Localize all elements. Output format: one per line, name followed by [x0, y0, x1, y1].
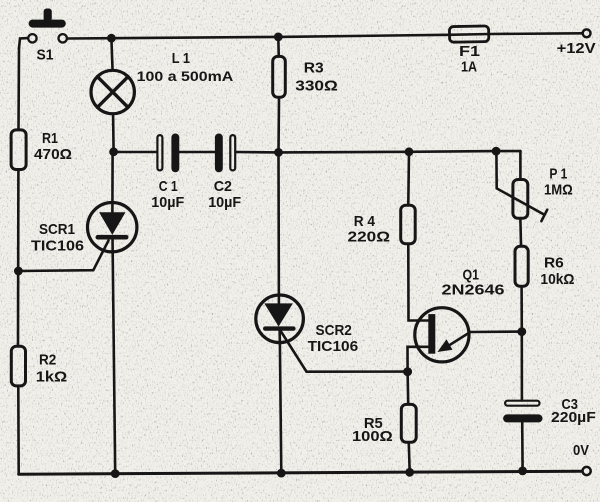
svg-text:P 1: P 1 — [549, 165, 567, 182]
svg-text:0V: 0V — [573, 442, 589, 459]
svg-text:100Ω: 100Ω — [352, 428, 393, 445]
node bottom rail C3 branch — [518, 467, 527, 476]
svg-text:R2: R2 — [39, 352, 56, 369]
capacitor C1 — [151, 134, 184, 212]
wire P1 top corner — [519, 151, 522, 178]
wire R4 bottom to Q1 base2 — [408, 245, 428, 320]
fuse F1 — [449, 26, 488, 76]
node top rail to R3 branch — [274, 33, 283, 42]
wire SCR1 gate to left rail — [18, 241, 108, 272]
svg-text:1kΩ: 1kΩ — [36, 369, 67, 386]
node bottom rail SCR2 branch — [277, 469, 286, 478]
svg-text:L 1: L 1 — [172, 50, 190, 67]
svg-text:10kΩ: 10kΩ — [540, 271, 574, 288]
node top rail to lamp branch — [107, 34, 116, 43]
svg-text:C 1: C 1 — [159, 178, 178, 195]
wire emitter node to C3 — [520, 332, 523, 401]
svg-text:10µF: 10µF — [208, 194, 241, 211]
wire lamp to middle-rail node — [112, 115, 115, 151]
svg-text:220µF: 220µF — [551, 409, 596, 426]
wire R6 to emitter node — [520, 288, 523, 332]
resistor R4 — [348, 205, 416, 245]
svg-text:C2: C2 — [214, 178, 232, 195]
wire Q1 emitter to node — [470, 330, 522, 333]
svg-text:F1: F1 — [459, 43, 480, 60]
wire lamp branch from top rail — [111, 38, 112, 68]
wire left rail mid segment — [17, 171, 20, 345]
resistor R6 — [515, 246, 575, 288]
wire P1 to R6 — [519, 220, 522, 245]
resistor R1 — [11, 130, 72, 170]
wire left rail upper segment — [17, 48, 20, 128]
svg-text:220Ω: 220Ω — [348, 229, 391, 246]
svg-text:470Ω: 470Ω — [34, 146, 72, 163]
wire between C1 and C2 — [179, 151, 214, 154]
svg-text:1MΩ: 1MΩ — [544, 182, 573, 199]
+12V terminal — [557, 29, 596, 57]
resistor R3 — [273, 56, 338, 97]
svg-text:330Ω: 330Ω — [295, 78, 338, 95]
wire middle rail from C2 to P1 corner — [236, 151, 520, 152]
node bottom rail R5 branch — [405, 468, 414, 477]
wire Q1 base1 to R5 — [408, 347, 429, 372]
wire middle rail segment to C1 — [114, 151, 157, 154]
thyristor SCR1 — [31, 152, 137, 255]
pushbutton switch S1 — [28, 9, 67, 64]
node bottom rail lamp branch — [111, 469, 120, 478]
node gate junction on left rail — [14, 267, 23, 276]
transistor Q1 unijunction 2N2646 — [415, 267, 505, 362]
capacitor C2 — [208, 134, 241, 212]
lamp L1 — [91, 50, 233, 114]
wire left rail lower segment — [17, 387, 20, 474]
svg-text:S1: S1 — [37, 47, 54, 64]
svg-text:SCR1: SCR1 — [39, 221, 75, 238]
wire R3 top — [277, 37, 280, 55]
resistor R2 — [11, 346, 67, 386]
node emitter junction — [517, 327, 526, 336]
0V terminal — [573, 442, 591, 475]
wire C3 to bottom rail — [521, 421, 524, 471]
svg-text:R 4: R 4 — [354, 213, 376, 230]
svg-text:2N2646: 2N2646 — [442, 282, 505, 299]
svg-text:R6: R6 — [544, 255, 564, 272]
resistor R5 — [352, 404, 416, 444]
wire SCR1 cathode down to bottom rail — [113, 253, 116, 473]
svg-text:100 a 500mA: 100 a 500mA — [137, 68, 234, 84]
wire from S1 left terminal to left rail — [19, 38, 28, 48]
svg-text:SCR2: SCR2 — [316, 322, 352, 339]
svg-text:TIC106: TIC106 — [31, 238, 84, 255]
thyristor SCR2 — [256, 152, 358, 355]
wire top rail from S1 to +12V — [68, 33, 582, 38]
capacitor C3 — [503, 396, 596, 426]
svg-text:TIC106: TIC106 — [308, 338, 359, 355]
wire junction to R5 — [406, 372, 409, 403]
node middle rail at P1 branch — [492, 147, 501, 156]
wire R3 bottom to middle rail — [277, 99, 280, 153]
svg-text:R3: R3 — [304, 60, 324, 77]
node middle rail at R4 branch — [405, 147, 414, 156]
svg-text:+12V: +12V — [557, 40, 596, 57]
svg-text:R1: R1 — [42, 130, 58, 147]
wire SCR2 cathode down to bottom rail — [280, 344, 281, 473]
svg-text:10µF: 10µF — [151, 194, 184, 211]
wire bottom rail — [19, 471, 582, 474]
node middle rail left — [109, 147, 118, 156]
node middle rail at R3/SCR2 branch — [274, 148, 283, 157]
wire R4 top — [407, 152, 410, 204]
svg-text:1A: 1A — [461, 59, 477, 76]
potentiometer P1 — [496, 151, 572, 221]
wire R5 bottom to bottom rail — [407, 444, 411, 473]
node SCR2 gate / R5 junction — [403, 367, 412, 376]
wire SCR2 gate to R5 branch — [281, 332, 408, 372]
